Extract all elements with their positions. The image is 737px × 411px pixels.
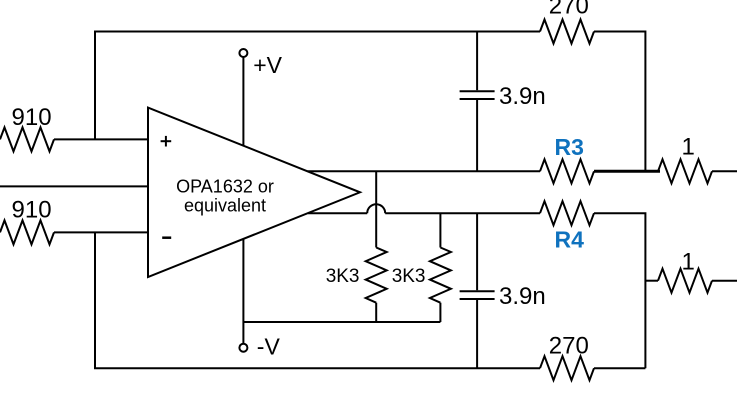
wire 3K3 #1 top (from top output line through hop)	[375, 171, 377, 247]
wire VOCM input	[0, 185, 148, 187]
resistor R2 910 (bottom input) zigzag	[0, 220, 54, 244]
wire bottom cap branch upper	[476, 213, 478, 290]
svg-text:3.9n: 3.9n	[499, 283, 546, 310]
wire top feedback left vertical and top rail	[95, 32, 540, 140]
svg-text:+V: +V	[253, 52, 282, 78]
wire hop arc	[367, 204, 385, 213]
wire -V vertical	[242, 239, 244, 344]
resistor R1 910 (top input) zigzag	[0, 127, 54, 151]
svg-text:3K3: 3K3	[392, 266, 426, 287]
terminal -V circle	[239, 344, 247, 352]
wire -V rail to 3K3 bottoms	[243, 321, 440, 323]
svg-text:1: 1	[682, 249, 695, 276]
svg-text:equivalent: equivalent	[184, 195, 266, 215]
wire top feedback right corner	[594, 32, 645, 172]
wire top cap branch upper	[476, 32, 478, 91]
resistor 3K3 #1 vertical zigzag	[366, 248, 387, 303]
wire op-amp output top	[308, 170, 541, 172]
resistor 270 (top feedback)	[540, 20, 594, 44]
op-amp + input sign	[161, 136, 172, 147]
svg-text:-V: -V	[257, 334, 281, 360]
wire lower 1 ohm branch	[645, 280, 658, 282]
svg-text:OPA1632 or: OPA1632 or	[176, 176, 274, 196]
terminal +V circle	[239, 49, 247, 57]
resistor 270 (bottom feedback)	[540, 356, 594, 380]
resistor R4 zigzag	[540, 201, 594, 225]
resistor R3 zigzag	[540, 159, 594, 183]
wire +V vertical	[242, 57, 244, 146]
wire R4 to right vertical	[594, 213, 645, 368]
resistor 3K3 #2 vertical zigzag	[430, 248, 451, 303]
wire thick segment R3 to 1 ohm	[594, 170, 660, 173]
op-amp U1 OPA1632 triangle	[148, 108, 360, 277]
resistor 1 ohm (bottom output)	[658, 269, 712, 293]
svg-text:R3: R3	[555, 134, 584, 160]
wire bottom cap branch lower	[476, 300, 478, 368]
svg-text:R4: R4	[555, 226, 585, 252]
resistor 1 ohm (top output)	[658, 159, 712, 183]
capacitor C1 3.9n top plates	[460, 90, 495, 92]
wire 3K3 #2 bottom	[439, 303, 441, 322]
wire + input	[54, 138, 148, 140]
wire top output exit	[712, 170, 737, 172]
svg-text:910: 910	[12, 197, 52, 224]
svg-text:1: 1	[682, 134, 695, 161]
svg-text:270: 270	[549, 0, 589, 20]
wire 3K3 #1 bottom	[375, 303, 377, 322]
svg-text:910: 910	[12, 104, 52, 131]
svg-text:270: 270	[549, 333, 589, 360]
wire 3K3 #2 top	[439, 213, 441, 247]
wire top cap branch lower	[476, 100, 478, 171]
wire bottom output exit	[712, 280, 737, 282]
capacitor C2 3.9n bottom plates	[460, 290, 495, 292]
svg-text:3.9n: 3.9n	[499, 83, 546, 110]
wire bottom feedback left vertical and bottom rail	[95, 232, 540, 368]
wire bottom feedback right	[594, 367, 645, 369]
wire - input	[54, 231, 148, 233]
op-amp - input sign	[162, 236, 171, 239]
svg-text:3K3: 3K3	[326, 266, 360, 287]
wire op-amp output bottom with hop over 3K3 branch	[308, 212, 367, 214]
